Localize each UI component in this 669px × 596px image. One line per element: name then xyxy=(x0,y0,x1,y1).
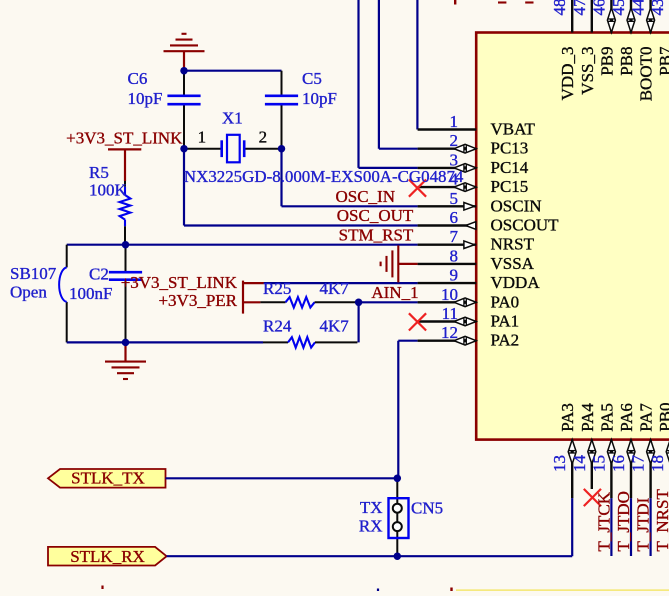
svg-text:PB0: PB0 xyxy=(656,403,669,432)
svg-text:PC14: PC14 xyxy=(491,158,529,177)
svg-text:CN5: CN5 xyxy=(411,498,443,517)
svg-text:PB8: PB8 xyxy=(617,47,636,76)
svg-text:1: 1 xyxy=(198,128,207,147)
svg-text:VSS_3: VSS_3 xyxy=(578,47,597,95)
svg-text:18: 18 xyxy=(648,455,667,472)
svg-text:OSC_IN: OSC_IN xyxy=(335,187,395,206)
svg-text:AIN_1: AIN_1 xyxy=(371,283,418,302)
svg-text:STM_RST: STM_RST xyxy=(339,225,414,244)
svg-text:6: 6 xyxy=(450,208,459,227)
svg-text:NRST: NRST xyxy=(491,235,535,254)
svg-text:45: 45 xyxy=(609,0,628,16)
svg-text:100K: 100K xyxy=(89,181,128,200)
svg-text:+3V3_PER: +3V3_PER xyxy=(158,291,237,310)
svg-text:SB107: SB107 xyxy=(10,264,57,283)
svg-text:T_JTDO: T_JTDO xyxy=(614,491,633,551)
svg-text:STLK_TX: STLK_TX xyxy=(71,468,145,487)
svg-text:C2: C2 xyxy=(89,265,109,284)
svg-text:C5: C5 xyxy=(302,69,322,88)
svg-text:T_JTDI: T_JTDI xyxy=(634,497,653,551)
svg-text:VDDA: VDDA xyxy=(491,273,541,292)
svg-text:R25: R25 xyxy=(263,279,291,298)
svg-text:X1: X1 xyxy=(222,109,243,128)
svg-text:VBAT: VBAT xyxy=(491,120,536,139)
svg-text:STLK_RX: STLK_RX xyxy=(70,547,145,566)
svg-text:PA3: PA3 xyxy=(558,403,577,432)
svg-text:8: 8 xyxy=(450,246,459,265)
svg-text:1: 1 xyxy=(450,112,459,131)
svg-text:44: 44 xyxy=(629,0,648,16)
svg-text:R5: R5 xyxy=(89,163,109,182)
svg-text:R24: R24 xyxy=(263,317,292,336)
svg-text:4K7: 4K7 xyxy=(320,317,350,336)
svg-text:7: 7 xyxy=(450,227,459,246)
svg-text:+3V3_ST_LINK: +3V3_ST_LINK xyxy=(121,273,238,292)
svg-text:PA2: PA2 xyxy=(491,331,520,350)
svg-text:OSCIN: OSCIN xyxy=(491,196,542,215)
svg-text:14: 14 xyxy=(570,455,589,473)
svg-text:PA1: PA1 xyxy=(491,312,520,331)
svg-text:PB9: PB9 xyxy=(597,47,616,76)
svg-text:TX: TX xyxy=(360,498,383,517)
svg-text:43: 43 xyxy=(648,0,667,16)
svg-text:PB7: PB7 xyxy=(656,46,669,76)
svg-text:47: 47 xyxy=(570,0,589,16)
svg-text:2: 2 xyxy=(450,131,459,150)
svg-text:BOOT0: BOOT0 xyxy=(637,47,656,102)
svg-text:Open: Open xyxy=(10,283,47,302)
svg-text:9: 9 xyxy=(450,266,459,285)
svg-text:OSCOUT: OSCOUT xyxy=(491,216,560,235)
svg-text:PC15: PC15 xyxy=(491,177,529,196)
svg-text:48: 48 xyxy=(550,0,569,16)
svg-text:11: 11 xyxy=(442,304,458,323)
svg-text:C6: C6 xyxy=(128,69,148,88)
svg-text:T_JTCK: T_JTCK xyxy=(594,491,613,551)
svg-text:2: 2 xyxy=(259,128,268,147)
svg-text:16: 16 xyxy=(609,455,628,472)
svg-text:VDD_3: VDD_3 xyxy=(558,47,577,101)
svg-text:PA0: PA0 xyxy=(491,292,520,311)
svg-text:PC13: PC13 xyxy=(491,139,529,158)
svg-text:PA7: PA7 xyxy=(637,403,656,432)
svg-text:5: 5 xyxy=(450,189,459,208)
svg-text:13: 13 xyxy=(550,455,569,472)
svg-text:PA6: PA6 xyxy=(617,403,636,432)
svg-text:OSC_OUT: OSC_OUT xyxy=(337,206,414,225)
svg-text:10pF: 10pF xyxy=(302,89,337,108)
svg-text:NX3225GD-8.000M-EXS00A-CG04874: NX3225GD-8.000M-EXS00A-CG04874 xyxy=(184,167,464,186)
svg-text:10: 10 xyxy=(441,285,458,304)
svg-text:10pF: 10pF xyxy=(128,89,163,108)
svg-text:VSSA: VSSA xyxy=(491,254,535,273)
svg-text:PA4: PA4 xyxy=(578,403,597,432)
svg-text:15: 15 xyxy=(589,455,608,472)
svg-text:PA5: PA5 xyxy=(597,403,616,432)
svg-text:T_NRST: T_NRST xyxy=(653,489,669,552)
svg-text:RX: RX xyxy=(359,517,383,536)
svg-text:100nF: 100nF xyxy=(69,284,112,303)
svg-text:17: 17 xyxy=(629,455,648,473)
svg-text:46: 46 xyxy=(589,0,608,16)
svg-text:+3V3_ST_LINK: +3V3_ST_LINK xyxy=(66,128,183,147)
svg-text:4K7: 4K7 xyxy=(320,279,350,298)
svg-text:12: 12 xyxy=(441,323,458,342)
